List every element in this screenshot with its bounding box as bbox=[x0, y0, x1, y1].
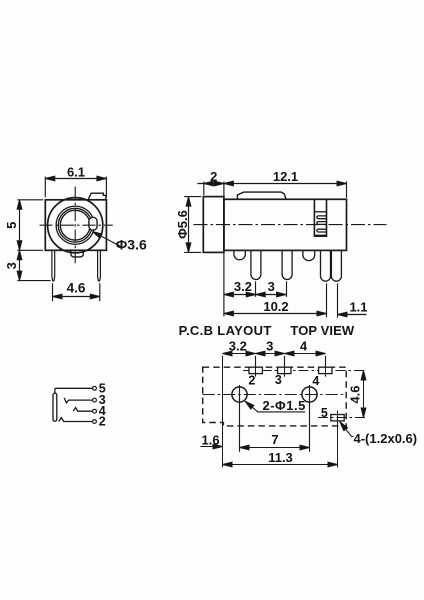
column bottom thick bbox=[314, 235, 326, 237]
terminal 4 bbox=[93, 409, 97, 413]
wire to pin 3 with contact bbox=[64, 398, 92, 403]
dim 1.6 bbox=[200, 446, 222, 448]
top dim line 3.2 3 4 bbox=[223, 353, 326, 355]
terminal 5 bbox=[93, 386, 97, 390]
pad5 extension down bbox=[337, 422, 339, 468]
jack sleeve bar bbox=[53, 393, 57, 421]
ring circle outer bbox=[56, 206, 94, 244]
serration teeth bbox=[314, 211, 326, 213]
leader dia 3.6 bbox=[93, 232, 123, 248]
front left leg bbox=[52, 250, 55, 281]
svg-text:2: 2 bbox=[99, 415, 106, 429]
outer barrel circle bbox=[48, 198, 103, 253]
serration slat 2 bbox=[317, 222, 327, 225]
bore circle bbox=[60, 210, 90, 240]
svg-text:5: 5 bbox=[4, 222, 19, 229]
svg-text:7: 7 bbox=[271, 432, 278, 447]
svg-text:P.C.B LAYOUT: P.C.B LAYOUT bbox=[179, 323, 272, 338]
svg-text:Φ5.6: Φ5.6 bbox=[175, 210, 190, 239]
leader 2-dia1.5 bbox=[245, 401, 305, 412]
pad 3 bbox=[278, 367, 291, 373]
dim 1.1 bbox=[338, 283, 367, 317]
svg-text:5: 5 bbox=[321, 406, 328, 420]
top mounting tab bbox=[88, 193, 106, 200]
dim 3 bbox=[17, 250, 22, 259]
svg-text:4: 4 bbox=[300, 338, 308, 353]
svg-text:4.6: 4.6 bbox=[348, 386, 363, 404]
dim 3.2 and 3 (side) bbox=[224, 253, 287, 317]
dim 4.6 bbox=[53, 283, 100, 301]
serration slat 1 bbox=[317, 216, 327, 219]
svg-text:TOP VIEW: TOP VIEW bbox=[290, 323, 355, 338]
hole left bbox=[232, 387, 247, 402]
wire to pin 2 with contact bbox=[59, 418, 93, 422]
dim 10.2 bbox=[224, 283, 327, 317]
svg-text:2: 2 bbox=[248, 374, 255, 388]
dim 5 bbox=[17, 200, 50, 281]
left reference extension line bbox=[222, 356, 224, 467]
barrel (front bushing) bbox=[203, 197, 224, 253]
svg-text:3.2: 3.2 bbox=[229, 338, 247, 353]
ring circle mid bbox=[58, 208, 92, 242]
pin leg 2 bbox=[251, 250, 261, 279]
svg-text:6.1: 6.1 bbox=[67, 164, 85, 179]
hole vertical ticks / extensions bbox=[240, 385, 310, 452]
plastic stub 1 bbox=[234, 250, 245, 259]
dim 2 and 12.1 bbox=[197, 181, 346, 197]
leader 4-(1.2x0.6) bbox=[340, 422, 354, 437]
switch contact column bbox=[314, 200, 326, 236]
svg-text:3: 3 bbox=[266, 338, 273, 353]
pad 5 bbox=[331, 415, 344, 421]
centerline horizontal bbox=[40, 224, 113, 226]
terminal 2 bbox=[93, 420, 97, 424]
pad 2 bbox=[249, 367, 262, 373]
svg-text:3: 3 bbox=[275, 373, 282, 387]
svg-text:10.2: 10.2 bbox=[263, 299, 288, 314]
svg-text:2: 2 bbox=[210, 169, 217, 184]
terminal 3 bbox=[93, 398, 97, 402]
top rib bbox=[237, 192, 286, 199]
svg-text:2-Φ1.5: 2-Φ1.5 bbox=[263, 398, 306, 413]
pin leg 6 bbox=[331, 250, 341, 281]
svg-text:3: 3 bbox=[268, 279, 275, 294]
dim 11.3 bbox=[223, 464, 338, 466]
svg-text:4: 4 bbox=[312, 374, 319, 388]
dim 6.1 bbox=[45, 177, 106, 198]
dim dia 5.6 bbox=[184, 197, 201, 253]
dim 7 bbox=[240, 447, 310, 449]
wire to pin 5 bbox=[55, 388, 93, 393]
pad center ticks bbox=[256, 356, 326, 377]
svg-text:1.6: 1.6 bbox=[202, 432, 220, 447]
body front square bbox=[45, 200, 106, 251]
svg-text:4.6: 4.6 bbox=[67, 280, 86, 295]
svg-text:3.2: 3.2 bbox=[234, 279, 252, 294]
svg-text:3: 3 bbox=[4, 262, 19, 269]
hole right bbox=[302, 387, 317, 402]
pin leg 5 bbox=[321, 250, 331, 281]
wire to pin 4 with contact bbox=[73, 408, 92, 412]
serration slat 3 bbox=[317, 229, 327, 232]
pad row centerline bbox=[243, 370, 367, 372]
dim 4.6 vertical bbox=[363, 371, 365, 418]
svg-text:Φ3.6: Φ3.6 bbox=[116, 236, 147, 252]
pin leg 3 bbox=[282, 250, 292, 279]
centerline vertical bbox=[74, 187, 76, 264]
pad 4 bbox=[319, 367, 332, 373]
svg-text:1.1: 1.1 bbox=[349, 299, 367, 314]
footprint dashed outline bbox=[203, 367, 347, 426]
svg-text:4-(1.2x0.6): 4-(1.2x0.6) bbox=[354, 431, 418, 446]
contact slot in bore bbox=[89, 217, 97, 230]
side centerline bbox=[194, 224, 387, 226]
front right leg bbox=[98, 250, 101, 281]
holes centerline bbox=[203, 394, 347, 396]
plastic stub 4 bbox=[303, 250, 315, 260]
svg-text:12.1: 12.1 bbox=[273, 169, 298, 184]
main body bbox=[224, 199, 347, 250]
svg-text:11.3: 11.3 bbox=[268, 450, 293, 465]
bottom boss tab bbox=[71, 250, 83, 257]
